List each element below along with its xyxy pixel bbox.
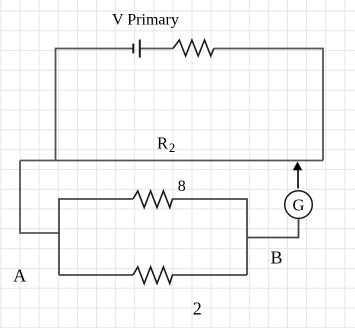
wire: rectangle bottom-right run [172,274,247,276]
galvanometer G (circle) [285,191,313,219]
svg-text:V Primary: V Primary [112,11,179,28]
svg-text:G: G [293,196,305,215]
wire: rectangle bottom-left run [59,274,133,276]
wire: left drop from middle wire to node A side [20,161,59,234]
wire: top-left loop (left vertical + top run to battery) [56,49,134,161]
resistor (rheostat in primary circuit) [173,40,214,56]
wire: node B to galvanometer [247,218,299,237]
svg-text:2: 2 [193,299,202,319]
battery V Primary (cell plates) [133,40,140,58]
wire: battery to rheostat [140,48,173,50]
wire: rheostat to top-right corner and down right side [214,49,324,161]
wire: parallel-branch rectangle, left side and top-left run [59,199,133,275]
resistor 8 (upper branch) [133,191,172,208]
jockey arrow from galvanometer to potentiometer wire [293,162,302,189]
svg-text:8: 8 [178,178,186,195]
resistor 2 (lower branch) [133,267,172,284]
svg-text:A: A [13,266,26,286]
wire: middle horizontal (potentiometer wire) [20,160,323,162]
wire: rectangle top-right run and right side [172,199,247,275]
svg-text:B: B [271,247,283,267]
